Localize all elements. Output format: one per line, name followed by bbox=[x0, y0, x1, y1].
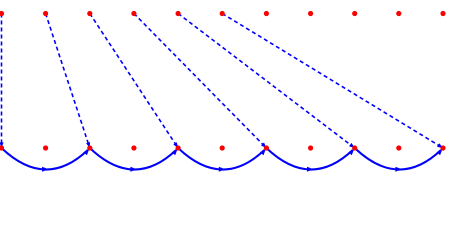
wire: dashed blue map line L0 from top dot 1 to bottom dot 1 bbox=[1, 14, 3, 146]
node: bottom red dot 2 bbox=[43, 145, 48, 150]
wire: dashed blue map line L3 from top dot 4 to bottom dot 7 bbox=[134, 14, 265, 147]
node: top red dot 7 bbox=[264, 11, 269, 16]
node: top red dot 2 bbox=[43, 11, 48, 16]
mid arrowhead of arc A4 bbox=[307, 167, 314, 172]
node: bottom red dot 6 bbox=[220, 145, 225, 150]
arrowhead of line L4 bbox=[349, 143, 355, 148]
node: top red dot 9 bbox=[352, 11, 357, 16]
mid arrowhead of arc A3 bbox=[219, 167, 225, 172]
node: bottom red dot 9 bbox=[352, 145, 357, 150]
node: bottom red dot 8 bbox=[308, 145, 313, 150]
node: top red dot 3 bbox=[87, 11, 92, 16]
node: bottom red dot 3 bbox=[87, 145, 92, 150]
arrowhead of line L0 bbox=[0, 142, 4, 148]
end arrowhead of arc A1 bbox=[83, 149, 89, 155]
mid arrowhead of arc A2 bbox=[130, 167, 137, 172]
mid arrowhead of arc A5 bbox=[395, 167, 402, 172]
wire: dashed blue map line L4 from top dot 5 to bottom dot 9 bbox=[178, 14, 353, 147]
node: bottom red dot 10 bbox=[396, 145, 401, 150]
wire: blue arc A1 from bottom dot 1 to bottom dot 3 bbox=[2, 148, 88, 170]
node: bottom red dot 4 bbox=[131, 145, 136, 150]
wire: blue arc A3 from bottom dot 5 to bottom dot 7 bbox=[178, 148, 264, 170]
arrowhead of line L5 bbox=[437, 143, 443, 148]
wire: blue arc A4 from bottom dot 7 to bottom dot 9 bbox=[266, 148, 352, 170]
node: top red dot 10 bbox=[396, 11, 401, 16]
end arrowhead of arc A5 bbox=[437, 149, 443, 155]
node: top red dot 8 bbox=[308, 11, 313, 16]
arrowhead of line L1 bbox=[86, 142, 90, 148]
end arrowhead of arc A2 bbox=[172, 149, 178, 155]
node: top red dot 4 bbox=[131, 11, 136, 16]
wire: blue arc A2 from bottom dot 3 to bottom dot 5 bbox=[90, 148, 176, 170]
wire: dashed blue map line L1 from top dot 2 to bottom dot 3 bbox=[46, 14, 89, 146]
node: top red dot 1 bbox=[0, 11, 4, 16]
node: bottom red dot 5 bbox=[176, 145, 181, 150]
node: bottom red dot 7 bbox=[264, 145, 269, 150]
end arrowhead of arc A4 bbox=[348, 149, 354, 155]
wire: blue arc A5 from bottom dot 9 to bottom dot 11 bbox=[355, 148, 441, 170]
node: bottom red dot 11 bbox=[440, 145, 445, 150]
end arrowhead of arc A3 bbox=[260, 149, 266, 155]
arrowhead of line L2 bbox=[173, 142, 178, 148]
arrowhead of line L3 bbox=[261, 143, 266, 149]
node: top red dot 5 bbox=[176, 11, 181, 16]
mid arrowhead of arc A1 bbox=[42, 167, 49, 172]
node: top red dot 6 bbox=[220, 11, 225, 16]
node: top red dot 11 bbox=[440, 11, 445, 16]
node: bottom red dot 1 bbox=[0, 145, 4, 150]
wire: dashed blue map line L5 from top dot 6 to bottom dot 11 bbox=[222, 14, 441, 147]
wire: dashed blue map line L2 from top dot 3 to bottom dot 5 bbox=[90, 14, 177, 146]
